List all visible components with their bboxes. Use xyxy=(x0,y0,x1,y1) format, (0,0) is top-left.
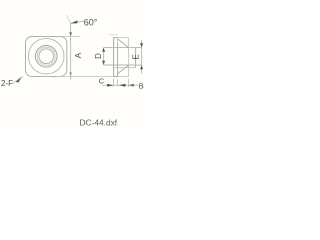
dimension D line xyxy=(103,48,105,65)
wire: faint top stub near side view xyxy=(109,34,118,36)
side view internal vertical xyxy=(117,43,119,77)
svg-text:2-F: 2-F xyxy=(1,79,13,88)
arrow C right xyxy=(119,84,125,87)
arrowhead 2-F xyxy=(16,77,22,83)
ring inner circle (bore) xyxy=(39,49,54,64)
side view bottom edge faint part xyxy=(118,76,129,78)
svg-text:60°: 60° xyxy=(84,17,98,27)
big circle (face edge) xyxy=(28,38,64,74)
drawing background xyxy=(0,0,146,131)
side view top edge faint part xyxy=(118,37,129,39)
insert body (rounded square, front view) xyxy=(26,37,67,77)
extension stub x=128.6 xyxy=(128,79,130,87)
leader 60deg line xyxy=(71,21,84,23)
arrow D bottom xyxy=(102,61,105,65)
svg-text:D: D xyxy=(94,53,103,59)
svg-text:E: E xyxy=(132,54,141,59)
filename text xyxy=(79,118,117,128)
cone edge bottom xyxy=(118,65,129,73)
ring outer circle (boss) xyxy=(35,45,57,67)
svg-text:DC-44.dxf: DC-44.dxf xyxy=(79,118,117,128)
dimension A line xyxy=(70,24,72,80)
arrow C left xyxy=(107,84,113,87)
boss bottom edge xyxy=(114,67,136,69)
arrow B xyxy=(129,84,134,87)
leader 2-F xyxy=(14,76,24,82)
arrow D top xyxy=(102,48,105,52)
dimension E line xyxy=(141,40,143,74)
side view top edge xyxy=(114,37,118,39)
extension stub x=117.6 xyxy=(117,79,119,87)
svg-text:C: C xyxy=(99,77,105,86)
wire: bottom extension line from square to side view xyxy=(56,76,114,78)
side view right edge xyxy=(128,38,130,77)
hole bottom edge + extensions xyxy=(104,64,142,66)
leader 60deg diagonal xyxy=(67,15,71,24)
side view left edge xyxy=(113,38,115,77)
side view internal vertical faint top xyxy=(117,38,119,43)
arrow A top xyxy=(69,32,72,36)
dimension C/B line xyxy=(102,84,139,86)
cone edge top xyxy=(118,39,129,48)
arrowhead 60deg xyxy=(71,20,78,23)
boss top edge + extensions xyxy=(104,47,142,49)
ring middle circle xyxy=(37,47,55,65)
svg-text:A: A xyxy=(73,52,83,58)
wire: top extension line from square to A dim xyxy=(62,36,81,38)
side view bottom edge xyxy=(114,76,118,78)
svg-text:B: B xyxy=(139,82,144,91)
arrow E top (outside) xyxy=(140,43,143,47)
arrow A bottom xyxy=(69,72,72,76)
arrow E bottom (outside) xyxy=(140,65,143,69)
boss face xyxy=(135,48,137,68)
extension stub x=113.6 xyxy=(113,79,115,87)
